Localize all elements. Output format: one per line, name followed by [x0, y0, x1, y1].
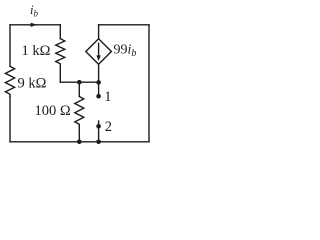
wire top-right segment	[99, 24, 149, 26]
dependent source lead top	[98, 25, 100, 39]
svg-text:100 Ω: 100 Ω	[35, 103, 71, 119]
wire right border	[148, 25, 150, 142]
resistor R 100 lead bottom	[78, 127, 80, 142]
wire left border bottom lead	[9, 96, 11, 142]
dependent source diamond body	[86, 39, 112, 65]
junction dot middle-right	[96, 80, 101, 85]
resistor R 100 lead top	[78, 82, 80, 96]
resistor R 100 zigzag	[75, 97, 84, 127]
dependent source arrow shaft	[98, 43, 100, 57]
dependent source arrow head	[96, 55, 100, 61]
svg-text:2: 2	[105, 119, 112, 135]
resistor R 1k zigzag	[56, 39, 65, 67]
svg-text:1: 1	[104, 89, 111, 105]
terminal 1 stub	[98, 82, 100, 94]
svg-text:99ib: 99ib	[114, 43, 137, 60]
resistor R 1k lead bottom	[59, 66, 61, 82]
dependent source lead bottom	[98, 64, 100, 82]
terminal 2 upper stub	[98, 121, 100, 124]
wire bottom	[10, 141, 149, 143]
svg-text:9 kΩ: 9 kΩ	[18, 76, 47, 92]
resistor R 9k zigzag	[5, 66, 14, 96]
junction dot middle-left	[77, 80, 82, 85]
terminal 1 dot	[96, 94, 101, 99]
junction dot bottom-left	[77, 140, 82, 145]
wire middle	[60, 81, 98, 83]
wire left border top lead	[9, 25, 11, 67]
svg-text:ib: ib	[30, 3, 38, 19]
current arrow ib head	[31, 23, 38, 27]
terminal 2 dot	[96, 124, 101, 129]
junction dot bottom-right	[96, 140, 101, 145]
terminal 2 lower stub	[98, 129, 100, 142]
wire top-left segment	[10, 24, 60, 26]
svg-text:1 kΩ: 1 kΩ	[22, 43, 51, 59]
resistor R 1k lead top	[59, 25, 61, 39]
